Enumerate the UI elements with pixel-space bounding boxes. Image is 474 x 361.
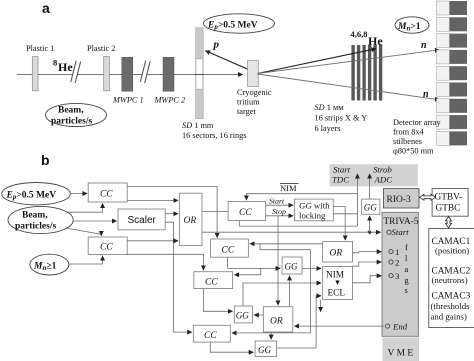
box CAMAC group [429, 229, 474, 328]
svg-text:Mn≥1: Mn≥1 [33, 262, 57, 273]
wire CC2 corner to CC6 [126, 254, 203, 270]
box RIO-3 [383, 189, 419, 208]
box GG1 [282, 257, 302, 274]
flag circle 1 [389, 247, 400, 257]
label flags vertical [405, 243, 409, 295]
svg-text:Scaler: Scaler [128, 215, 157, 226]
VME crate gray column [383, 338, 420, 361]
End circle [386, 322, 408, 332]
wire OR2 up to GG1 [289, 276, 291, 307]
svg-text:V M E: V M E [388, 349, 414, 359]
box OR3 [323, 242, 353, 263]
box GG2 [234, 306, 252, 323]
svg-text:4,6,8: 4,6,8 [351, 29, 368, 39]
junction diamond on trigger line [367, 230, 371, 235]
wire GG with locking out2 to TDC riser [333, 213, 357, 215]
svg-text:Start: Start [269, 196, 285, 205]
flag circle 3 [389, 271, 400, 281]
box CC7 [193, 325, 230, 342]
wire Scaler out2 down to CC7 [165, 222, 192, 332]
double arrow RIO-3 to GTBV [420, 194, 436, 200]
svg-text:Plastic 1: Plastic 1 [26, 44, 54, 53]
label detector array [393, 118, 442, 156]
svg-text:particles/s: particles/s [51, 117, 92, 127]
box OR2 [263, 307, 292, 332]
wire beam line [17, 74, 243, 76]
svg-text:MWPC 2: MWPC 2 [154, 96, 186, 105]
label 8He beam [53, 58, 73, 75]
detector array stilbene rows [437, 1, 468, 145]
svg-text:Plastic 2: Plastic 2 [87, 44, 115, 53]
box CC2 [88, 237, 127, 255]
strip detector 6 layers [351, 45, 382, 101]
wire GG3 up to NIM-ECL [277, 296, 321, 348]
wire CC6 to GG2 [204, 289, 233, 312]
wire Beam to Scaler [73, 220, 117, 222]
wire OR1 long line to TRIVA Start [202, 231, 381, 233]
wire NIM-ECL to flag 2 [353, 262, 382, 266]
label SD 1 mm 16 sectors [182, 121, 247, 140]
box CC1 [88, 183, 127, 202]
box CC4 [228, 202, 266, 221]
svg-text:Beam,: Beam, [22, 211, 48, 221]
wire Beam to CC2 top [66, 228, 101, 236]
cryogenic tritium target [237, 61, 272, 116]
wire CC1 to OR1 [127, 199, 178, 201]
svg-text:f: f [405, 243, 408, 252]
wire OR1 to CC4 [202, 211, 228, 213]
wire trigger branch to CC3 [250, 243, 345, 245]
svg-text:CAMAC3: CAMAC3 [432, 292, 471, 302]
svg-text:TDC: TDC [332, 175, 349, 185]
svg-text:OR: OR [270, 317, 283, 327]
svg-text:1: 1 [395, 247, 399, 257]
svg-text:φ80*50 mm: φ80*50 mm [393, 147, 434, 156]
wire OR2 to GG2 [254, 314, 263, 316]
chamber MWPC 2 [154, 57, 186, 104]
box GG adc [362, 199, 380, 214]
svg-text:stilbenes: stilbenes [393, 137, 422, 146]
wire Scaler out1 to OR1 [165, 213, 178, 215]
svg-text:GG: GG [236, 311, 249, 321]
svg-text:CC: CC [204, 331, 217, 341]
svg-text:(position): (position) [435, 246, 469, 256]
wire NIM-ECL to flag 3 [353, 276, 382, 283]
svg-text:Start: Start [392, 227, 410, 237]
svg-text:6 layers: 6 layers [315, 124, 341, 133]
wire CC7 to GG3 [210, 342, 253, 352]
wire CC2 to OR1 [127, 240, 178, 242]
svg-text:s: s [405, 286, 408, 295]
svg-text:NIM: NIM [326, 271, 344, 281]
wire Beam to CC1 bottom [67, 204, 102, 213]
wire proton arrow p [206, 39, 258, 74]
svg-text:n: n [421, 40, 427, 51]
svg-text:Stop: Stop [272, 207, 286, 216]
svg-text:16 sectors, 16 rings: 16 sectors, 16 rings [182, 131, 247, 140]
svg-text:GG: GG [258, 345, 271, 355]
wire Mn to CC2 bottom [69, 256, 103, 264]
wire ray to 4,6,8He [258, 49, 377, 74]
svg-text:particles/s: particles/s [15, 222, 56, 232]
svg-text:OR: OR [330, 249, 343, 259]
svg-text:Strob: Strob [373, 165, 392, 175]
svg-text:CC: CC [205, 278, 218, 288]
svg-text:ECL: ECL [328, 289, 346, 299]
svg-text:CC: CC [222, 246, 235, 256]
svg-text:b: b [41, 152, 50, 168]
box GG with locking [294, 199, 333, 221]
svg-text:Start: Start [333, 165, 351, 175]
svg-text:Ep>0.5 MeV: Ep>0.5 MeV [207, 21, 258, 32]
wire GG with locking out to OR3 [333, 207, 345, 240]
double arrow GTBV to CAMAC [446, 217, 452, 228]
wire GG1 to NIM-ECL [302, 267, 321, 269]
svg-text:GG: GG [285, 262, 298, 272]
svg-text:Ep>0.5 MeV: Ep>0.5 MeV [6, 191, 57, 202]
svg-text:(neutrons): (neutrons) [432, 275, 468, 285]
svg-text:GTBV-: GTBV- [435, 193, 463, 203]
svg-text:target: target [237, 107, 256, 116]
box TRIVA-5 [382, 212, 419, 336]
box Scaler [118, 209, 165, 230]
beam break 2 [140, 61, 150, 84]
svg-text:p: p [213, 39, 220, 51]
svg-text:CC: CC [100, 243, 113, 253]
wire CC1 top out to CC3 [127, 187, 217, 238]
svg-text:End: End [392, 322, 408, 332]
wire GG2 up to NIM-ECL [243, 283, 321, 306]
svg-text:a: a [405, 265, 409, 274]
svg-text:tritium: tritium [237, 98, 260, 107]
label 4,6,8He [351, 29, 384, 48]
ellipse Beam particles/s (panel b) [8, 206, 73, 233]
ellipse Ep>0.5 MeV (panel a) [204, 14, 275, 33]
box CC3 [211, 239, 249, 257]
svg-text:Mn>1: Mn>1 [397, 22, 421, 33]
svg-text:3: 3 [395, 271, 400, 281]
svg-text:SD 1 mm: SD 1 mm [182, 121, 214, 130]
svg-text:g: g [405, 276, 409, 285]
wire CC4 Start to GG with locking [266, 204, 293, 206]
svg-text:RIO-3: RIO-3 [387, 195, 412, 205]
ellipse Mn>=1 (panel b) [30, 254, 69, 275]
label SD 1 mm strips [315, 103, 368, 133]
wire NIM line to CC4 top [246, 194, 357, 200]
beam break 1 [71, 61, 81, 84]
scintillator Plastic 1 [26, 44, 54, 91]
wire NIM-ECL bottom stub arrow [320, 300, 322, 312]
chamber MWPC 1 [112, 57, 144, 104]
svg-text:a: a [42, 0, 50, 16]
wire OR2 down to GG3 [270, 332, 272, 339]
svg-text:GTBC: GTBC [436, 204, 461, 214]
flag circle 2 [389, 258, 400, 268]
wire TDC riser up to Start TDC [356, 174, 358, 226]
svg-text:TRIVA-5: TRIVA-5 [384, 217, 419, 227]
wire branch down to CC7 right [232, 244, 311, 333]
box CC6 [194, 272, 233, 289]
box NIM-ECL converter [323, 267, 353, 300]
wire ray upper n [258, 50, 440, 74]
svg-text:OR: OR [184, 216, 197, 226]
detector SD annular [194, 28, 204, 119]
svg-text:SD 1 мм: SD 1 мм [315, 103, 345, 112]
wire Start TDC arrow (over panel) [356, 174, 358, 187]
wire CC4 bottom to TDC riser [239, 221, 357, 227]
svg-text:(thresholds: (thresholds [431, 301, 471, 311]
svg-text:and gains): and gains) [431, 312, 467, 322]
wire junction up to GG adc [369, 216, 371, 232]
ellipse Mn>1 (panel a) [395, 17, 429, 33]
svg-text:from 8x4: from 8x4 [393, 128, 424, 137]
wire GG adc up to Strob ADC [369, 174, 371, 199]
svg-text:locking: locking [299, 211, 326, 221]
wire Strob ADC arrow (over panel) [369, 174, 371, 187]
svg-text:2: 2 [395, 258, 399, 268]
label NIM overline [280, 183, 299, 193]
ellipse Beam particles/s (panel a) [46, 103, 107, 126]
svg-text:Detector array: Detector array [393, 118, 442, 127]
svg-text:Beam,: Beam, [58, 106, 84, 116]
wire CC3 down to GG1 [228, 257, 281, 268]
wire Ep to CC1 [71, 193, 88, 195]
wire ray lower n [258, 74, 440, 100]
svg-text:CC: CC [100, 190, 113, 200]
scintillator Plastic 2 [87, 44, 115, 91]
box GG3 [255, 341, 277, 357]
svg-text:ADC: ADC [374, 175, 393, 185]
wire End to OR2 [295, 325, 385, 327]
gray panel Start TDC / Strob ADC [330, 164, 418, 186]
wire Stop tap down to OR2 [277, 216, 279, 305]
wire branch to CC6 right [235, 268, 261, 274]
svg-text:Cryogenic: Cryogenic [237, 88, 272, 97]
wire CC4 Stop to GG with locking [266, 215, 293, 217]
svg-text:MWPC 1: MWPC 1 [112, 96, 144, 105]
svg-text:He: He [58, 60, 73, 74]
svg-text:8: 8 [53, 58, 57, 68]
box OR1 [179, 193, 202, 245]
svg-text:GG: GG [364, 203, 377, 213]
svg-text:GG with: GG with [299, 201, 330, 211]
svg-text:CC: CC [239, 208, 252, 218]
wire OR3 to flag 1 [353, 252, 382, 253]
svg-text:NIM: NIM [280, 183, 297, 193]
svg-text:16 strips X & Y: 16 strips X & Y [315, 114, 368, 123]
box GTBV-GTBC [432, 189, 468, 217]
ellipse Ep>0.5 MeV (panel b) [2, 183, 71, 205]
